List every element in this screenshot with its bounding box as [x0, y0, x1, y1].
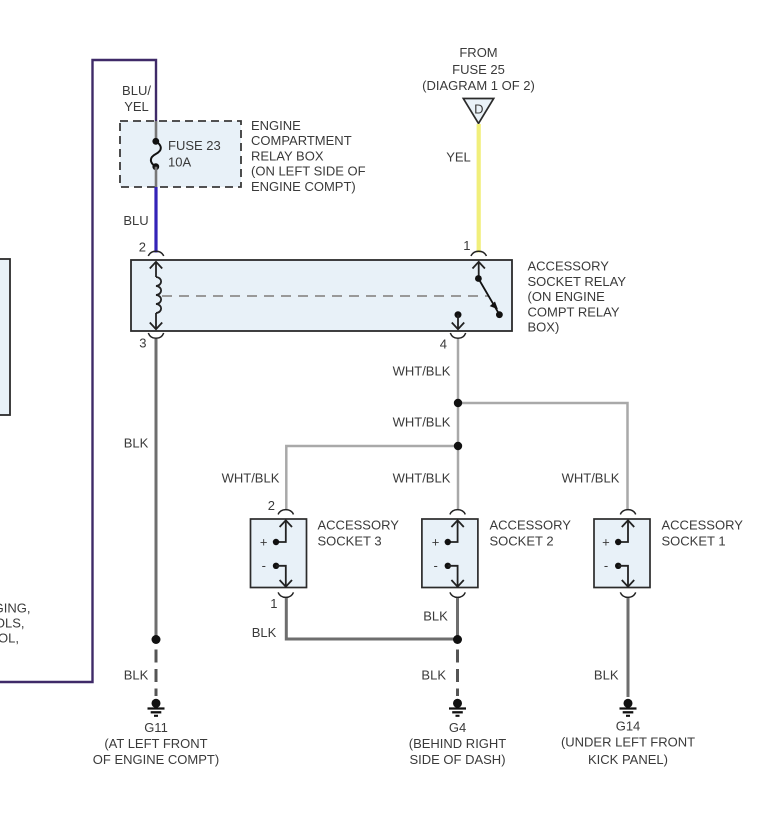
svg-text:WHT/BLK: WHT/BLK	[393, 471, 451, 486]
pin 3 terminal arc	[148, 333, 163, 338]
label ACCESSORY SOCKET 3	[318, 518, 400, 549]
label BLU/YEL	[122, 83, 151, 114]
svg-text:+: +	[602, 535, 610, 550]
svg-text:WHT/BLK: WHT/BLK	[222, 471, 280, 486]
svg-text:1: 1	[270, 596, 277, 611]
svg-text:OL,: OL,	[0, 631, 19, 646]
svg-text:2: 2	[268, 498, 275, 513]
svg-text:BLK: BLK	[252, 625, 277, 640]
label G4	[409, 720, 507, 767]
svg-text:BLU: BLU	[123, 213, 148, 228]
relay pin 4 contact	[452, 311, 464, 329]
ground G14	[620, 699, 637, 716]
wire YEL	[477, 124, 481, 253]
relay internal dashed line	[162, 295, 489, 297]
svg-text:ACCESSORY: ACCESSORY	[528, 259, 610, 274]
wire BLK socket 2	[456, 598, 459, 639]
pin 2 terminal arc	[148, 251, 163, 256]
svg-text:SOCKET 1: SOCKET 1	[662, 534, 726, 549]
svg-text:+: +	[260, 535, 268, 550]
label ACCESSORY SOCKET RELAY	[528, 259, 627, 335]
svg-text:(AT LEFT FRONT: (AT LEFT FRONT	[104, 736, 207, 751]
svg-text:SOCKET 2: SOCKET 2	[490, 534, 554, 549]
svg-text:OLS,: OLS,	[0, 616, 25, 631]
svg-text:3: 3	[139, 336, 146, 351]
label FUSE 23 10A	[168, 138, 221, 170]
svg-text:2: 2	[139, 240, 146, 255]
svg-text:OF ENGINE COMPT): OF ENGINE COMPT)	[93, 752, 219, 767]
svg-text:ENGINE COMPT): ENGINE COMPT)	[251, 179, 356, 194]
svg-text:4: 4	[440, 337, 447, 352]
ground G4	[449, 699, 466, 716]
label FROM FUSE 25	[422, 45, 535, 93]
svg-text:-: -	[604, 558, 608, 573]
svg-text:WHT/BLK: WHT/BLK	[393, 364, 451, 379]
svg-text:WHT/BLK: WHT/BLK	[393, 415, 451, 430]
svg-text:BLK: BLK	[594, 668, 619, 683]
label ACCESSORY SOCKET 1	[662, 518, 744, 549]
accessory socket relay box	[131, 260, 512, 331]
svg-text:KICK PANEL): KICK PANEL)	[588, 752, 668, 767]
accessory socket 1	[594, 510, 650, 598]
svg-text:WHT/BLK: WHT/BLK	[562, 471, 620, 486]
svg-text:(ON LEFT SIDE OF: (ON LEFT SIDE OF	[251, 164, 366, 179]
label ENGINE COMPARTMENT RELAY BOX	[251, 118, 366, 194]
svg-text:FROM: FROM	[459, 45, 497, 60]
wire BLK left dashed	[155, 650, 158, 697]
wire WHT/BLK left branch	[286, 446, 458, 510]
relay switch	[473, 262, 503, 318]
svg-text:ENGINE: ENGINE	[251, 118, 301, 133]
svg-text:BLK: BLK	[124, 436, 149, 451]
connector box left (partial)	[0, 259, 10, 415]
svg-text:G4: G4	[449, 720, 466, 735]
svg-text:D: D	[474, 102, 483, 117]
svg-text:ACCESSORY: ACCESSORY	[662, 518, 744, 533]
svg-text:BLK: BLK	[423, 609, 448, 624]
svg-text:(ON ENGINE: (ON ENGINE	[528, 289, 606, 304]
svg-text:-: -	[433, 558, 437, 573]
wire BLK socket 3 to junction	[286, 598, 457, 639]
junction dot B	[454, 442, 462, 450]
svg-text:COMPARTMENT: COMPARTMENT	[251, 133, 352, 148]
junction splice dot left	[152, 635, 161, 644]
svg-text:10A: 10A	[168, 155, 191, 170]
accessory socket 2	[422, 510, 478, 598]
svg-text:ACCESSORY: ACCESSORY	[490, 518, 572, 533]
svg-text:(DIAGRAM 1 OF 2): (DIAGRAM 1 OF 2)	[422, 78, 535, 93]
fuse terminal dot bottom	[152, 163, 159, 170]
svg-text:BLK: BLK	[124, 668, 149, 683]
svg-text:-: -	[262, 558, 266, 573]
wire fuse internal top	[155, 121, 158, 141]
fuse box ENGINE COMPARTMENT RELAY BOX (dashed)	[120, 121, 241, 187]
label ACCESSORY SOCKET 2	[490, 518, 572, 549]
svg-text:G11: G11	[144, 720, 168, 735]
junction dot A	[454, 399, 462, 407]
wire fuse internal bottom	[155, 167, 158, 187]
pin 1 terminal arc	[471, 251, 486, 256]
svg-text:SIDE OF DASH): SIDE OF DASH)	[409, 752, 505, 767]
wire BLK left	[155, 339, 158, 638]
svg-text:FUSE 23: FUSE 23	[168, 138, 221, 153]
accessory socket 3	[251, 498, 307, 611]
svg-text:BLU/: BLU/	[122, 83, 151, 98]
label G14	[561, 719, 695, 768]
svg-text:FUSE 25: FUSE 25	[452, 62, 505, 77]
svg-text:YEL: YEL	[124, 99, 149, 114]
svg-text:+: +	[432, 535, 440, 550]
label G11	[93, 720, 219, 767]
connector D triangle	[463, 99, 493, 124]
ground G11	[148, 699, 165, 716]
svg-text:(BEHIND RIGHT: (BEHIND RIGHT	[409, 736, 507, 751]
svg-text:BLK: BLK	[421, 668, 446, 683]
wire WHT/BLK from pin 4	[457, 339, 460, 510]
wire BLU/YEL loop	[0, 60, 156, 682]
svg-text:ACCESSORY: ACCESSORY	[318, 518, 400, 533]
wire BLK socket 1	[627, 598, 630, 697]
junction dot socket 2	[453, 635, 462, 644]
svg-text:RELAY BOX: RELAY BOX	[251, 148, 324, 163]
svg-text:GING,: GING,	[0, 601, 31, 616]
wire BLK socket 2 dashed	[456, 650, 459, 697]
svg-text:SOCKET 3: SOCKET 3	[318, 534, 382, 549]
wire BLU	[154, 187, 157, 253]
relay coil	[150, 262, 162, 329]
svg-text:COMPT RELAY: COMPT RELAY	[528, 304, 620, 319]
svg-text:1: 1	[463, 238, 470, 253]
fuse terminal dot top	[152, 138, 159, 145]
pin 4 terminal arc	[450, 333, 465, 338]
svg-text:YEL: YEL	[446, 150, 471, 165]
label cut-off component text	[0, 601, 31, 646]
fuse FUSE 23 element	[151, 141, 161, 166]
svg-text:BOX): BOX)	[528, 320, 560, 335]
svg-text:(UNDER LEFT FRONT: (UNDER LEFT FRONT	[561, 735, 695, 750]
svg-text:SOCKET RELAY: SOCKET RELAY	[528, 274, 627, 289]
svg-text:G14: G14	[616, 719, 641, 734]
wire WHT/BLK right branch	[458, 403, 628, 510]
